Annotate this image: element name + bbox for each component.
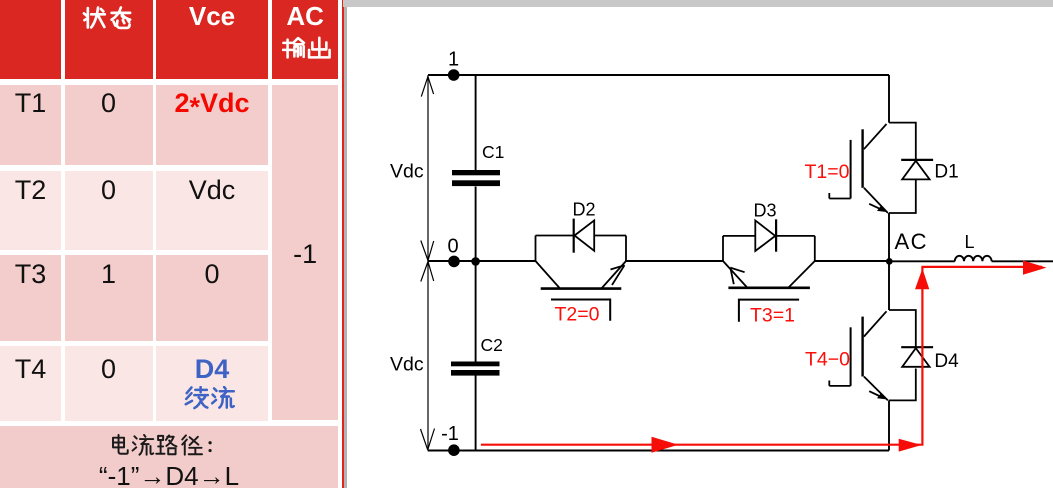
svg-text:-1: -1: [441, 423, 459, 445]
svg-text:AC: AC: [895, 229, 929, 254]
svg-text:D2: D2: [573, 200, 596, 220]
svg-text:T3=1: T3=1: [750, 305, 795, 327]
svg-text:D1: D1: [934, 162, 958, 183]
svg-text:T4−0: T4−0: [805, 349, 850, 371]
svg-text:T2=0: T2=0: [555, 304, 600, 326]
svg-text:0: 0: [447, 236, 458, 258]
svg-text:C1: C1: [482, 142, 504, 162]
svg-text:1: 1: [448, 49, 459, 71]
svg-text:L: L: [965, 232, 975, 252]
svg-text:Vdc: Vdc: [390, 161, 424, 183]
svg-text:D3: D3: [754, 201, 777, 221]
svg-text:C2: C2: [481, 335, 503, 355]
svg-text:D4: D4: [934, 351, 959, 372]
svg-text:T1=0: T1=0: [805, 161, 850, 183]
svg-text:Vdc: Vdc: [390, 354, 424, 376]
